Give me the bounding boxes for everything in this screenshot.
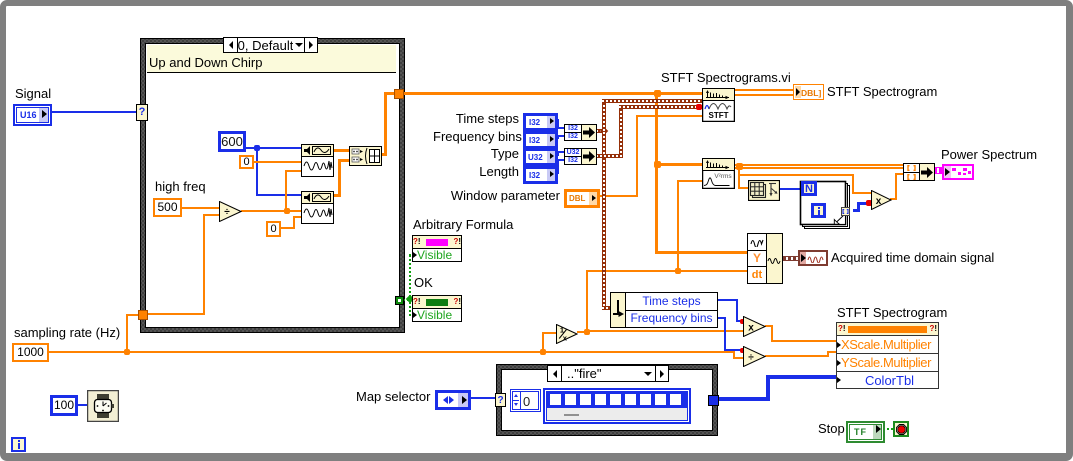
control terminal DBL Window parameter [564,189,600,208]
svg-text:x: x [748,323,754,334]
wire 600 branch to chirp2 top [256,194,301,196]
wire build array out [381,153,387,156]
label high freq [155,180,206,194]
label Window parameter [447,189,560,203]
wire PS branch down [738,168,740,176]
wire cluster to STFT input2 [602,99,702,103]
control terminal TF Stop [846,421,885,443]
node 1000 junction at reciprocal [540,349,546,355]
node coercion dot multiply2 [740,319,745,324]
control terminal I32 Frequency bins [523,131,558,149]
wire reciprocal to multiply2 bottom [587,330,743,332]
indicator Power Spectrum cluster [942,164,974,180]
wire 0a to chirp1 mid [254,161,301,163]
wire into divide bottom input [203,214,219,216]
wire trunk to Build Waveform Y input [655,251,748,254]
wire terminal jogs Frequency bins [554,137,559,139]
case structure 1 [140,38,405,333]
wire build waveform to indicator (waveform brown) [783,256,798,261]
wire multiply1 out [890,198,897,200]
wire up into case tunnel [126,315,128,351]
svg-text:V²rms: V²rms [714,173,732,180]
label Map selector [356,390,430,404]
bundle node power spectrum [903,163,935,181]
node coercion dot multiply1 [866,200,872,206]
case 1 selector label [223,37,318,53]
subVI STFT Spectrograms [702,88,735,122]
case 1 boolean tunnel right [395,296,404,305]
multiply node 2 [743,316,766,337]
for loop auto-index tunnel [841,207,850,216]
svg-text:÷: ÷ [748,353,754,364]
label Arbitrary Formula [413,218,513,232]
wire 600 branch down to chirp2 [256,147,258,195]
label Signal [15,87,51,101]
unbundle by name node [610,292,718,328]
node cluster junction [600,127,608,135]
wire loop tunnel to multiply1 (array) [853,209,860,212]
bundle node 2 [564,148,597,165]
property node Arbitrary Formula [412,235,462,262]
wire terminal jogs Time steps [554,119,559,121]
wire Signal to case selector [46,111,137,113]
label Type [445,147,519,161]
wire cluster bundle1 out [596,129,606,133]
wire dt horizontal [586,270,678,272]
wire unbundle Time steps to multiply2 [718,299,738,301]
wire boolean into Arbitrary Formula node [409,254,413,256]
label Time steps [445,112,519,126]
divide node 2 [743,346,766,367]
node 1000 junction left [124,349,130,355]
wire cluster bundle2 out [596,154,623,158]
wire reciprocal branch up [586,271,588,331]
numeric constant 0a [239,155,254,169]
label sampling rate (Hz) [14,326,120,340]
svg-text:STFT: STFT [709,111,729,120]
case 1 orange tunnel top right [394,89,404,99]
multiply node 1 [871,190,892,210]
wire to matrix size icon [738,174,740,189]
wire trunk to Power Spectrum VI input [658,163,702,166]
property node OK [412,295,462,322]
wire branch up to chirp1 bottom: vertical [285,171,287,210]
divide node 1 [219,201,242,222]
property node STFT Spectrogram [836,322,939,389]
wire dt to build waveform [678,270,748,272]
wire 1000 long horizontal [49,351,543,353]
wire cluster2 up [619,107,623,158]
for loop N terminal [801,181,817,196]
control terminal Map selector enum [435,390,471,410]
wire unbundle Frequency bins to divide2 [718,317,726,319]
wire color table to ColorTbl (blue array) [719,397,770,401]
wire 500 to divide [182,207,219,209]
node boolean junction diamond [406,295,414,303]
case 2 output tunnel [708,395,719,406]
svg-text:÷: ÷ [224,207,230,218]
label STFT Spectrograms.vi [661,71,791,85]
numeric constant 1000 [12,343,49,362]
wire dt branch up to PS VI [677,181,679,270]
wire sampling tunnel to divide: vertical [203,214,205,315]
wire terminal jogs Type [554,154,559,156]
subVI Power Spectrum [702,158,735,189]
control terminal U16 Signal [13,104,52,126]
node trunk junction at power spectrum [654,161,661,168]
numeric constant 500 [153,198,182,217]
while loop stop terminal [893,421,909,437]
chirp pattern VI 2 [301,191,334,224]
control terminal I32 Length [523,166,558,184]
label Length [445,165,519,179]
wire branch to chirp1 bottom input [285,170,301,172]
while loop i terminal [11,437,26,452]
indicator Acquired time domain signal [798,250,828,266]
label STFT Spectrogram [827,85,937,99]
wire up into reciprocal [542,332,544,351]
wire stop boolean [879,428,894,430]
svg-text:x: x [876,196,882,207]
numeric constant 600 [218,131,246,152]
wire bundle output to Power Spectrum indicator (cluster pink) [934,167,942,174]
wire boolean vertical [409,255,411,297]
wire chirp2 out to build array [333,194,341,197]
index spinbox 0 [510,389,541,412]
wire to multiply1 top: horizontal [738,174,854,176]
indicator STFT Spectrogram 2D array DBL [793,84,824,100]
label Stop [818,422,845,436]
numeric constant 100 [50,395,78,416]
wire chirp1 out to build array [333,149,349,152]
wire PS VI 2D output double line [734,164,903,169]
label Power Spectrum [941,148,1037,162]
wire map selector to case2 [467,397,497,399]
chirp pattern VI 1 [301,144,334,177]
bundle node 1 [564,124,597,141]
wire terminal jogs Length [554,172,559,174]
wire main vertical array trunk [655,93,658,253]
numeric constant 0b [266,221,281,237]
node array junction [654,90,661,97]
wire boolean into OK node [409,314,413,316]
wire i to loop tunnel [826,210,841,212]
wire matrix size to N [779,188,801,190]
case structure 2 fire [496,364,718,436]
matrix size node [748,180,780,201]
wire to multiply1 top: vertical [852,174,854,194]
color table array constant [543,388,691,424]
node dt junction [675,268,681,274]
wire cluster up [602,101,606,131]
label OK [414,276,433,290]
control terminal I32 Time steps [523,113,558,131]
wire boolean green from case tunnel [403,299,411,301]
build array node [349,146,382,166]
wire 1000 to divide2 bottom [543,351,735,353]
wire reciprocal out [577,331,587,333]
wire 100 to metronome [78,404,87,406]
for loop i terminal [811,203,826,218]
case 1 orange tunnel bottom left [138,310,148,320]
wire case tunnel to STFT vi [404,92,702,95]
node 600 junction [254,145,260,151]
node reciprocal junction [584,329,590,335]
case 2 selector label [547,365,669,382]
label STFT Spectrogram property [837,306,947,320]
node coercion dot STFT [696,104,702,110]
wire 0b to chirp2 bottom [281,227,295,229]
node PS output junction [736,163,743,170]
case 1 yellow label band [147,45,396,73]
wire 600 to chirp1 top [246,147,301,149]
wire STFT 2D output double line [734,89,793,96]
control terminal U32 Type [523,148,558,166]
build waveform node [747,233,783,284]
label Frequency bins [433,130,519,144]
wire multiply2 out to XScale.Multiplier [765,325,773,327]
wire divide output to chirp2 mid [241,210,301,212]
wait until next ms multiple metronome [87,390,119,422]
wire cluster2 to STFT input3 [619,105,702,109]
label Acquired time domain signal [831,251,994,265]
for loop structure [797,178,853,232]
case 2 selector tunnel [495,393,506,407]
reciprocal node 1/x [556,324,578,344]
wire cluster down to unbundle [602,132,606,308]
case 1 selector tunnel [136,104,148,121]
node divide output junction [284,208,290,214]
wire divide2 out to YScale.Multiplier [765,355,829,357]
wire window parameter to STFT [595,195,638,197]
node coercion dot divide2 [740,348,745,353]
wire sampling tunnel to divide: horizontal [147,313,205,315]
